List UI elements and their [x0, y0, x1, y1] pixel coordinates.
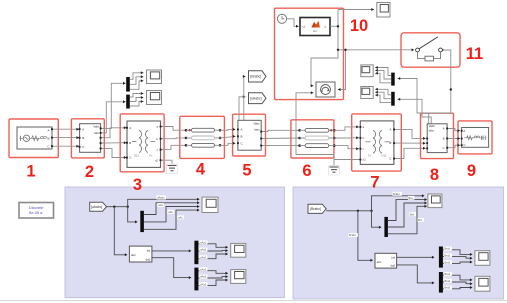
svg-text:[Brabc]: [Brabc] — [250, 75, 261, 79]
svg-text:uAa3: uAa3 — [200, 255, 207, 259]
svg-text:Brb: Brb — [410, 212, 415, 216]
svg-text:n2: n2 — [363, 158, 367, 162]
svg-text:5: 5 — [242, 162, 251, 180]
svg-text:fcn: fcn — [313, 29, 317, 33]
svg-text:D11: D11 — [134, 153, 139, 157]
svg-text:Yn: Yn — [149, 153, 153, 157]
svg-text:abc: abc — [131, 253, 136, 257]
svg-text:uAa2: uAa2 — [200, 275, 207, 279]
svg-text:11: 11 — [466, 45, 483, 63]
svg-text:n2: n2 — [155, 158, 159, 162]
svg-text:A: A — [443, 127, 445, 131]
svg-text:2: 2 — [85, 163, 94, 181]
svg-text:A: A — [241, 128, 243, 132]
svg-text:4: 4 — [196, 161, 206, 179]
svg-text:5e-05 s.: 5e-05 s. — [29, 210, 43, 215]
svg-text:B: B — [82, 136, 84, 140]
svg-text:Bra2: Bra2 — [445, 279, 451, 283]
svg-text:Iabc: Iabc — [429, 129, 435, 133]
svg-text:abc: abc — [377, 260, 382, 264]
svg-text:10: 10 — [350, 17, 368, 35]
svg-text:Bra1: Bra1 — [445, 247, 451, 251]
svg-text:B: B — [389, 141, 391, 145]
svg-text:uAa3: uAa3 — [200, 282, 207, 286]
svg-text:Iabc: Iabc — [94, 131, 100, 135]
svg-text:uAa: uAa — [158, 203, 163, 207]
svg-text:7: 7 — [370, 174, 379, 192]
svg-text:[Brabc]: [Brabc] — [310, 207, 321, 211]
svg-text:uAabc: uAabc — [157, 196, 165, 200]
svg-text:B: B — [47, 136, 49, 140]
svg-text:Vabc: Vabc — [253, 121, 260, 125]
svg-text:A: A — [47, 129, 49, 133]
svg-text:Vabc: Vabc — [93, 124, 100, 128]
svg-text:1: 1 — [26, 163, 35, 181]
svg-text:uAa1: uAa1 — [200, 241, 207, 245]
svg-text:dq0: dq0 — [146, 257, 151, 261]
svg-text:A: A — [129, 126, 131, 130]
svg-text:uAa1: uAa1 — [200, 267, 207, 271]
svg-text:Brc: Brc — [418, 218, 423, 222]
svg-text:Yn: Yn — [368, 154, 372, 158]
svg-text:9: 9 — [467, 162, 476, 180]
svg-text:A: A — [389, 128, 391, 132]
svg-text:Bra1: Bra1 — [445, 272, 451, 276]
svg-text:A: A — [82, 128, 84, 132]
svg-text:B: B — [241, 135, 243, 139]
svg-text:Brabc: Brabc — [393, 192, 401, 196]
svg-text:D11: D11 — [381, 154, 386, 158]
svg-text:6: 6 — [302, 162, 311, 180]
svg-text:[w]: [w] — [391, 255, 395, 259]
svg-text:Iabc: Iabc — [254, 127, 260, 131]
svg-text:dq0: dq0 — [390, 263, 395, 267]
svg-text:3: 3 — [133, 176, 142, 194]
svg-text:uAa2: uAa2 — [200, 248, 207, 252]
svg-text:[uAabc]: [uAabc] — [91, 205, 103, 209]
svg-text:Bra2: Bra2 — [445, 254, 451, 258]
svg-text:x1: x1 — [302, 25, 306, 29]
svg-text:8: 8 — [430, 166, 439, 184]
svg-text:Brabc: Brabc — [349, 233, 357, 237]
svg-text:Bra3: Bra3 — [445, 260, 451, 264]
svg-text:uAc: uAc — [178, 216, 183, 220]
svg-text:[uAabc]: [uAabc] — [250, 96, 262, 100]
svg-text:A: A — [463, 129, 465, 133]
svg-text:B: B — [443, 137, 445, 141]
svg-text:Bra3: Bra3 — [445, 286, 451, 290]
svg-text:uAb: uAb — [168, 210, 173, 214]
svg-text:C: C — [443, 146, 445, 150]
svg-text:B: B — [129, 141, 131, 145]
svg-text:Bra: Bra — [409, 196, 414, 200]
svg-text:Vabc: Vabc — [429, 124, 436, 128]
svg-text:[w]: [w] — [147, 249, 151, 253]
